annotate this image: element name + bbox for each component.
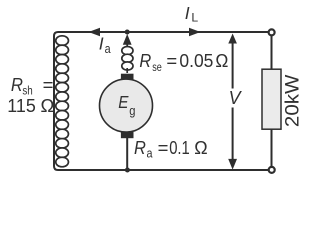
brush top (black square) [121, 74, 134, 81]
wire: top bus, left side, bottom bus [54, 32, 268, 170]
svg-text:L: L [191, 11, 198, 25]
svg-text:R: R [139, 50, 151, 71]
resistor R_se series field coil [122, 47, 133, 71]
wire armature branch with up arrow [126, 44, 128, 50]
current arrow I_a on top wire [89, 28, 101, 37]
wire brush to bottom bus [126, 138, 128, 170]
wire right column top [271, 36, 273, 70]
brush bottom (black square) [121, 132, 134, 138]
svg-text:=: = [158, 137, 169, 158]
generator E_g armature circle [100, 79, 153, 132]
svg-text:115: 115 [7, 96, 36, 116]
svg-text:I: I [185, 3, 190, 23]
terminal top (open circle) [269, 29, 275, 35]
svg-text:0.05: 0.05 [179, 50, 213, 71]
svg-text:R: R [11, 74, 23, 95]
svg-text:Ω: Ω [41, 95, 55, 116]
svg-text:Ω: Ω [215, 50, 228, 71]
svg-text:I: I [99, 34, 104, 54]
wire right column bottom [271, 129, 273, 166]
load resistor rectangle [262, 69, 281, 129]
svg-text:g: g [129, 104, 135, 118]
voltage arrow V (double headed) [232, 42, 234, 89]
svg-text:0.1: 0.1 [169, 137, 190, 158]
svg-text:R: R [134, 137, 146, 158]
terminal bottom (open circle) [269, 167, 275, 173]
svg-text:a: a [105, 41, 112, 56]
svg-text:=: = [43, 74, 54, 95]
node junction top [125, 30, 130, 35]
label 20kW (rotated) [282, 74, 304, 127]
svg-text:V: V [229, 87, 242, 108]
resistor R_sh shunt field coil [56, 36, 69, 167]
svg-text:Ω: Ω [194, 137, 208, 158]
node junction bottom [125, 168, 130, 173]
svg-text:a: a [147, 146, 154, 161]
svg-text:20kW: 20kW [282, 74, 304, 127]
svg-text:se: se [152, 62, 162, 74]
svg-text:=: = [166, 50, 177, 71]
current arrow I_L on top wire [189, 28, 201, 37]
svg-text:E: E [118, 92, 128, 112]
wire coil to brush [126, 68, 128, 73]
